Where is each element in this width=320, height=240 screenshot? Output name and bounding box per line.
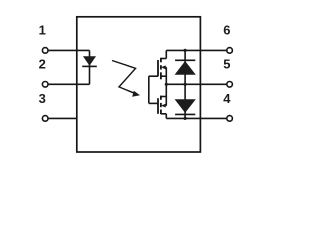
svg-text:4: 4 <box>223 91 231 106</box>
svg-text:1: 1 <box>39 23 46 38</box>
svg-text:2: 2 <box>39 56 46 71</box>
svg-text:6: 6 <box>223 23 230 38</box>
svg-text:5: 5 <box>223 56 230 71</box>
svg-text:3: 3 <box>39 91 46 106</box>
